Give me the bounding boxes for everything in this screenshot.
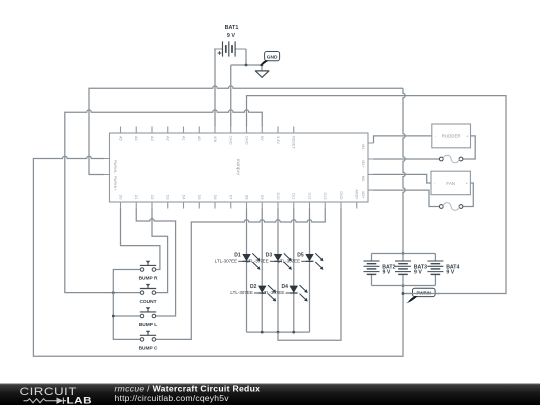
wire net D8 LED column — [246, 209, 248, 333]
junction GND flag attach — [261, 64, 264, 67]
svg-text:D8: D8 — [244, 195, 248, 200]
svg-text:LTL-307EE: LTL-307EE — [278, 259, 300, 264]
svg-text:BUMP L: BUMP L — [139, 322, 157, 328]
junction LED rail junction — [261, 331, 264, 334]
junction battery bank + rail junction — [402, 252, 405, 255]
wire battery top lead x403 — [402, 254, 404, 262]
svg-text:D5: D5 — [197, 195, 201, 200]
wire net D13 to BUMP C — [156, 209, 325, 340]
svg-text:RUDDER: RUDDER — [442, 134, 461, 139]
svg-text:M1-: M1- — [361, 144, 365, 151]
svg-text:LTL-307EE: LTL-307EE — [230, 290, 252, 295]
svg-text:VIN: VIN — [213, 136, 217, 143]
svg-text:D0: D0 — [118, 195, 122, 200]
connector for FAN — [439, 203, 463, 211]
wire branch to BUMP L left — [113, 315, 140, 317]
wire GND horizontal at BAT1 — [231, 64, 262, 66]
svg-text:9 V: 9 V — [383, 269, 391, 275]
svg-text:LTL-307EE: LTL-307EE — [246, 259, 268, 264]
LED D5 LTL-307EE — [278, 252, 324, 269]
LED D2 LTL-307EE — [230, 284, 276, 301]
wire PWRIN net over flag — [403, 293, 440, 295]
junction battery-/GND/PWRIN junction — [402, 292, 405, 295]
svg-text:GND: GND — [339, 191, 343, 200]
svg-text:D13: D13 — [323, 193, 327, 200]
wire battery bottom lead x371.5 — [371, 274, 373, 285]
wire net 5V: Arduino 5V to switch commons — [65, 110, 262, 293]
junction battery bank - rail junction — [402, 284, 405, 287]
svg-text:COUNT: COUNT — [139, 299, 156, 305]
wire FAN right to connector — [463, 183, 473, 207]
motor FAN — [431, 171, 470, 195]
svg-text:A3: A3 — [150, 136, 154, 141]
svg-text:D5: D5 — [297, 252, 304, 258]
junction LED rail junction — [292, 331, 295, 334]
battery BAT4 — [427, 256, 443, 274]
wire net D2 to COUNT — [152, 209, 168, 293]
svg-text:A2: A2 — [166, 136, 170, 141]
svg-text:A1: A1 — [181, 136, 185, 141]
junction BUMP L junction — [112, 315, 115, 318]
svg-text:9 V: 9 V — [414, 269, 422, 275]
svg-text:D2: D2 — [150, 195, 154, 200]
svg-text:D1: D1 — [234, 252, 241, 258]
battery BAT2 — [364, 256, 380, 274]
wire GND stub to ground symbol — [261, 65, 263, 71]
svg-text:D4: D4 — [282, 284, 289, 290]
wire net D12 LED column — [309, 209, 311, 333]
svg-text:D4: D4 — [181, 195, 185, 200]
net flag PWRIN — [402, 288, 440, 303]
svg-text:Arduino: Arduino — [236, 158, 242, 175]
wire battery top lead x371.5 — [371, 254, 373, 262]
LED D3 LTL-307EE — [246, 252, 292, 269]
svg-text:D1: D1 — [134, 195, 138, 200]
svg-text:D2: D2 — [250, 284, 257, 290]
wire LED rail to Arduino GND (bottom) — [278, 209, 341, 341]
svg-text:PWRIN+: PWRIN+ — [113, 176, 117, 192]
svg-text:3.3V: 3.3V — [276, 136, 280, 144]
svg-text:http://circuitlab.com/cqeyh5v: http://circuitlab.com/cqeyh5v — [115, 393, 230, 403]
svg-text:M1+: M1+ — [361, 160, 365, 168]
wire net battery+ : PWRIN+ pin to top rail corner — [89, 86, 403, 175]
wire net battery- : PWRIN- pin, left rail, bottom rail to battery bank - — [33, 156, 403, 356]
wire net M1- to RUDDER left — [374, 136, 432, 143]
footer bar — [0, 384, 540, 405]
wire battery bottom lead x435.4 — [434, 274, 436, 285]
svg-text:LTL-307EE: LTL-307EE — [215, 259, 237, 264]
svg-text:A4: A4 — [134, 136, 138, 141]
svg-text:PWRIN-: PWRIN- — [113, 160, 117, 175]
ground flag GND — [260, 52, 280, 67]
svg-text:GND: GND — [244, 136, 248, 145]
wire GND down to Arduino GND pin — [230, 65, 232, 127]
svg-text:BUMP C: BUMP C — [139, 346, 158, 352]
svg-text:LTL-307EE: LTL-307EE — [262, 290, 284, 295]
LED D4 LTL-307EE — [262, 284, 308, 301]
wire net M2+ to FAN connector — [374, 190, 440, 206]
svg-text:D11: D11 — [292, 193, 296, 200]
svg-text:D10: D10 — [276, 193, 280, 200]
svg-text:AREF: AREF — [355, 189, 359, 200]
ground symbol — [255, 71, 269, 77]
wire net battery+ : vertical x403 down to BAT3+ — [403, 88, 405, 253]
wire net VIN: BAT1+ to Arduino VIN — [214, 49, 216, 127]
svg-text:GND: GND — [229, 136, 233, 145]
svg-text:M2+: M2+ — [361, 191, 365, 199]
junction 5V/COUNT junction — [112, 291, 115, 294]
svg-text:9 V: 9 V — [446, 269, 454, 275]
svg-text:RESET: RESET — [292, 136, 296, 149]
svg-text:BAT1: BAT1 — [225, 25, 239, 31]
LED D1 LTL-307EE — [215, 252, 261, 269]
wire LED cathode rail — [247, 331, 310, 333]
svg-text:M2-: M2- — [361, 176, 365, 183]
svg-text:D12: D12 — [307, 193, 311, 200]
svg-text:D9: D9 — [260, 195, 264, 200]
wire switch common: BUMP R left to BUMP C left — [113, 270, 140, 340]
svg-text:D3: D3 — [166, 195, 170, 200]
wire BAT1- lead down — [245, 49, 247, 65]
battery BAT3 — [395, 256, 411, 274]
svg-text:5V: 5V — [260, 136, 264, 141]
svg-text:D7: D7 — [229, 195, 233, 200]
wire battery bank - rail — [372, 285, 436, 287]
CircuitLab logo — [20, 385, 93, 405]
motor RUDDER — [432, 124, 471, 148]
wire RUDDER right to connector — [463, 136, 475, 159]
pushbutton switch BUMP C — [139, 331, 158, 352]
svg-text:LAB: LAB — [67, 397, 93, 405]
wire net D9 LED column — [261, 209, 263, 333]
wire battery top lead x435.4 — [434, 254, 436, 262]
wire net D10 LED column — [277, 209, 279, 333]
svg-text:A5: A5 — [118, 136, 122, 141]
op-amp U1 Arduino module — [104, 127, 374, 209]
junction LED rail junction — [277, 331, 280, 334]
pushbutton switch BUMP L — [139, 307, 157, 328]
svg-text:D3: D3 — [266, 252, 273, 258]
pushbutton switch COUNT — [139, 284, 156, 305]
pushbutton switch BUMP R — [139, 261, 158, 282]
connector for RUDDER — [439, 155, 463, 163]
wire net M2- to FAN left — [374, 174, 432, 183]
svg-text:9 V: 9 V — [227, 33, 235, 39]
svg-text:FAN: FAN — [446, 181, 455, 186]
svg-text:A0: A0 — [197, 136, 201, 141]
battery BAT1 — [214, 41, 246, 56]
svg-text:GND: GND — [267, 55, 278, 61]
wire battery bank + rail — [372, 253, 436, 255]
junction BAT1- junction — [245, 64, 248, 67]
svg-text:D6: D6 — [213, 195, 217, 200]
wire battery bottom lead x403 — [402, 274, 404, 285]
wire net M1+ to RUDDER connector — [374, 158, 440, 160]
wire net GND: Arduino GND pin via right side to battery- — [247, 96, 507, 294]
wire net D11 LED column — [293, 209, 295, 333]
svg-text:BUMP R: BUMP R — [139, 276, 158, 282]
wire net D0 to BUMP R — [121, 209, 160, 270]
wire net D1 to BUMP L — [136, 209, 175, 317]
